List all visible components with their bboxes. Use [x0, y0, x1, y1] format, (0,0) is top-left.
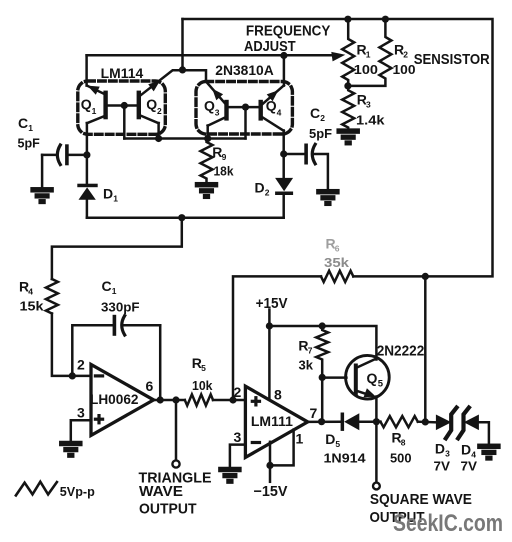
svg-text:7V: 7V: [461, 458, 478, 473]
transistor Q3: [224, 100, 228, 121]
wire Q2 emitter drop: [157, 123, 160, 139]
transistor Q2: [137, 91, 141, 120]
node dot Q4 rail: [280, 52, 287, 59]
wire square wave tap: [375, 422, 378, 483]
resistor R3: [342, 86, 354, 130]
wire R6 node down to output row: [424, 276, 427, 421]
svg-text:1: 1: [112, 286, 117, 296]
svg-text:D: D: [325, 431, 335, 447]
svg-text:5: 5: [378, 379, 384, 390]
wire triangle tap down: [175, 400, 178, 460]
svg-text:7: 7: [310, 405, 318, 421]
wire Q4 collector rise: [283, 56, 286, 86]
node dot R1 bottom: [344, 82, 351, 89]
diode D1: [77, 184, 97, 188]
svg-text:18k: 18k: [214, 164, 235, 179]
resistor R7: [316, 326, 328, 377]
svg-text:D: D: [103, 186, 113, 202]
svg-text:+15V: +15V: [256, 296, 288, 312]
wire D4 to ground: [479, 422, 489, 444]
capacitor C1 5pF: [57, 145, 60, 165]
transistor Q1: [103, 91, 107, 120]
svg-text:8: 8: [401, 438, 406, 448]
wire pin7 to D5: [308, 420, 341, 423]
frequency adjust arrow into R1: [331, 52, 345, 62]
wire LH0062 pin3: [71, 420, 91, 442]
svg-text:Q: Q: [204, 98, 215, 114]
svg-text:7V: 7V: [434, 458, 451, 473]
svg-text:500: 500: [390, 451, 412, 466]
svg-text:3: 3: [366, 100, 371, 110]
node dot R8 D3: [422, 418, 429, 425]
transistor Q4: [259, 100, 263, 121]
svg-text:D: D: [435, 441, 445, 457]
svg-text:15k: 15k: [20, 299, 45, 314]
svg-text:SeekIC.com: SeekIC.com: [393, 510, 503, 537]
svg-text:6: 6: [335, 244, 340, 254]
svg-text:Q: Q: [81, 96, 92, 112]
ground below LH0062 pin3: [60, 442, 81, 445]
svg-text:Q: Q: [266, 98, 277, 114]
wire frequency-adjust rail: [87, 54, 334, 57]
wire Q3Q4 base drop: [244, 107, 247, 138]
svg-text:1: 1: [366, 49, 371, 59]
node dot Q3 emitter: [204, 135, 211, 142]
svg-text:35k: 35k: [324, 255, 350, 270]
wire C1 to ground: [41, 155, 44, 188]
svg-text:3: 3: [77, 405, 85, 421]
svg-text:1: 1: [28, 123, 33, 133]
wire top-rail drop at x=182: [181, 19, 184, 70]
svg-text:Q: Q: [146, 96, 157, 112]
node dot pin7: [318, 418, 325, 425]
svg-text:Q: Q: [367, 370, 378, 386]
terminal square output: [373, 483, 380, 490]
terminal triangle output: [172, 460, 179, 467]
svg-text:5pF: 5pF: [18, 135, 40, 150]
node dot Q5 emitter join: [373, 418, 380, 425]
wire feedback up: [72, 325, 112, 376]
diode D2: [275, 178, 293, 191]
svg-text:2: 2: [77, 357, 85, 373]
capacitor C2 5pF: [284, 153, 305, 156]
wire Q1 emitter drop: [86, 123, 89, 184]
wire Q1 collector drop: [85, 55, 88, 85]
svg-text:2: 2: [320, 113, 325, 123]
svg-text:8: 8: [274, 387, 282, 403]
wire LH0062 output: [154, 399, 185, 402]
wire +15V rail to Q5 collector: [269, 326, 376, 360]
svg-text:330pF: 330pF: [101, 299, 140, 314]
wire R4 to pin2: [52, 314, 91, 376]
svg-text:3k: 3k: [299, 358, 314, 373]
svg-text:SENSISTOR: SENSISTOR: [414, 51, 490, 68]
capacitor C1 330pF: [113, 315, 117, 336]
svg-text:2N3810A: 2N3810A: [215, 62, 273, 78]
node dot R7 bottom: [319, 374, 326, 381]
wire Q4 emitter drop: [282, 131, 285, 179]
wire LM111 pin3: [230, 445, 246, 468]
node dot R7 top: [319, 322, 326, 329]
svg-text:2: 2: [265, 188, 270, 198]
dashed outline 2N3810A: [196, 82, 292, 135]
wire top rail to right edge down to R6 row: [183, 19, 493, 276]
ground below R9: [196, 183, 217, 186]
node dot LM111 pin2: [229, 396, 236, 403]
svg-text:5: 5: [201, 363, 206, 373]
svg-text:LH0062: LH0062: [90, 391, 139, 407]
ground below C1: [32, 188, 53, 191]
svg-text:C: C: [310, 105, 320, 121]
svg-text:LM111: LM111: [251, 413, 293, 429]
svg-text:OUTPUT: OUTPUT: [139, 500, 197, 517]
node dot R2 top: [382, 16, 389, 23]
svg-text:SQUARE WAVE: SQUARE WAVE: [370, 491, 472, 508]
svg-text:−15V: −15V: [254, 484, 288, 500]
svg-text:3: 3: [215, 108, 220, 118]
comparator U2 LM111: [245, 386, 307, 457]
svg-text:LM114: LM114: [101, 66, 144, 81]
zener diode D3: [436, 415, 452, 431]
svg-text:3: 3: [234, 429, 242, 445]
svg-text:2: 2: [157, 106, 162, 116]
zener diode D4: [458, 408, 469, 439]
node dot base Q3Q4: [242, 104, 249, 111]
svg-text:1.4k: 1.4k: [356, 113, 385, 128]
svg-text:2: 2: [234, 384, 242, 400]
dashed outline LM114: [78, 81, 166, 134]
node dot bottom rail: [178, 214, 185, 221]
svg-text:7: 7: [308, 346, 313, 356]
wire R7 bottom down to pin7 node: [321, 377, 324, 421]
wire bottom rail to R4: [52, 218, 182, 279]
svg-text:D: D: [255, 180, 265, 196]
svg-text:FREQUENCY: FREQUENCY: [246, 22, 331, 39]
ground below C2: [317, 190, 338, 193]
resistor R4: [46, 279, 58, 314]
svg-text:9: 9: [222, 152, 227, 162]
wire feedback down to output: [159, 325, 162, 400]
node dot base Q1Q2: [121, 102, 128, 109]
triangle waveform symbol: [16, 482, 57, 496]
resistor R2: [348, 19, 392, 86]
resistor R5: [185, 394, 213, 405]
svg-text:4: 4: [28, 287, 33, 297]
svg-text:WAVE: WAVE: [139, 483, 183, 500]
svg-text:1: 1: [92, 106, 97, 116]
wire dot to Q3 corner: [183, 70, 207, 82]
wire base junction drop: [123, 106, 126, 139]
resistor R6: [321, 271, 353, 282]
svg-text:100: 100: [354, 62, 378, 77]
node dot rail x182: [179, 66, 186, 73]
svg-text:2N2222: 2N2222: [377, 344, 425, 360]
node dot R1 top: [344, 16, 351, 23]
wire Q1-Q2 base link: [107, 104, 138, 107]
op-amp U1 LH0062: [91, 364, 154, 435]
svg-text:3: 3: [445, 449, 450, 459]
ground below LM111 pin3: [219, 468, 240, 471]
svg-text:5Vp-p: 5Vp-p: [60, 484, 95, 499]
wire +15V drop to pin8: [268, 310, 271, 400]
svg-text:1N914: 1N914: [324, 451, 367, 466]
svg-text:1: 1: [296, 431, 304, 447]
svg-text:1: 1: [113, 194, 118, 204]
svg-text:5pF: 5pF: [309, 126, 332, 141]
wire coupling bus y138: [124, 137, 245, 140]
node dot C1 node: [83, 151, 90, 158]
wire Q3 emitter drop: [206, 126, 209, 139]
svg-text:D: D: [461, 442, 471, 458]
wire LM111 pin1: [270, 430, 294, 466]
svg-text:10k: 10k: [192, 378, 213, 393]
resistor R1: [342, 19, 354, 86]
svg-text:5: 5: [335, 439, 340, 449]
wire R5 to LM111 pin2: [213, 399, 245, 402]
node dot feedback join: [157, 396, 164, 403]
node dot C2 node: [280, 150, 287, 157]
ground below R3: [338, 130, 359, 133]
node dot -15V: [266, 462, 273, 469]
wire LM111 pin4 to -15V: [269, 442, 272, 482]
wire R8 to D3: [418, 420, 436, 423]
wire Q3-Q4 base link: [228, 106, 259, 109]
svg-text:6: 6: [146, 378, 154, 394]
transistor Q5 2N2222: [346, 355, 390, 399]
ground after D4: [478, 445, 499, 448]
resistor R9: [201, 139, 213, 184]
node dot Q2 emitter: [155, 135, 162, 142]
wire R6 left segment down to LM111 pin 2 node: [233, 276, 321, 400]
wire R7 bottom to Q5 base: [322, 376, 346, 379]
node dot LH0062 pin2: [69, 372, 76, 379]
svg-text:ADJUST: ADJUST: [244, 38, 296, 55]
node dot triangle tap: [172, 396, 179, 403]
svg-text:C: C: [18, 115, 28, 131]
node dot R6 tap: [422, 273, 429, 280]
svg-text:100: 100: [393, 62, 416, 77]
svg-text:4: 4: [277, 108, 282, 118]
node dot +15V rail: [266, 322, 273, 329]
wire bottom rail: [87, 216, 284, 219]
svg-text:2: 2: [403, 49, 408, 59]
svg-text:C: C: [102, 278, 112, 294]
resistor R8: [381, 416, 418, 427]
diode D5: [341, 413, 345, 431]
